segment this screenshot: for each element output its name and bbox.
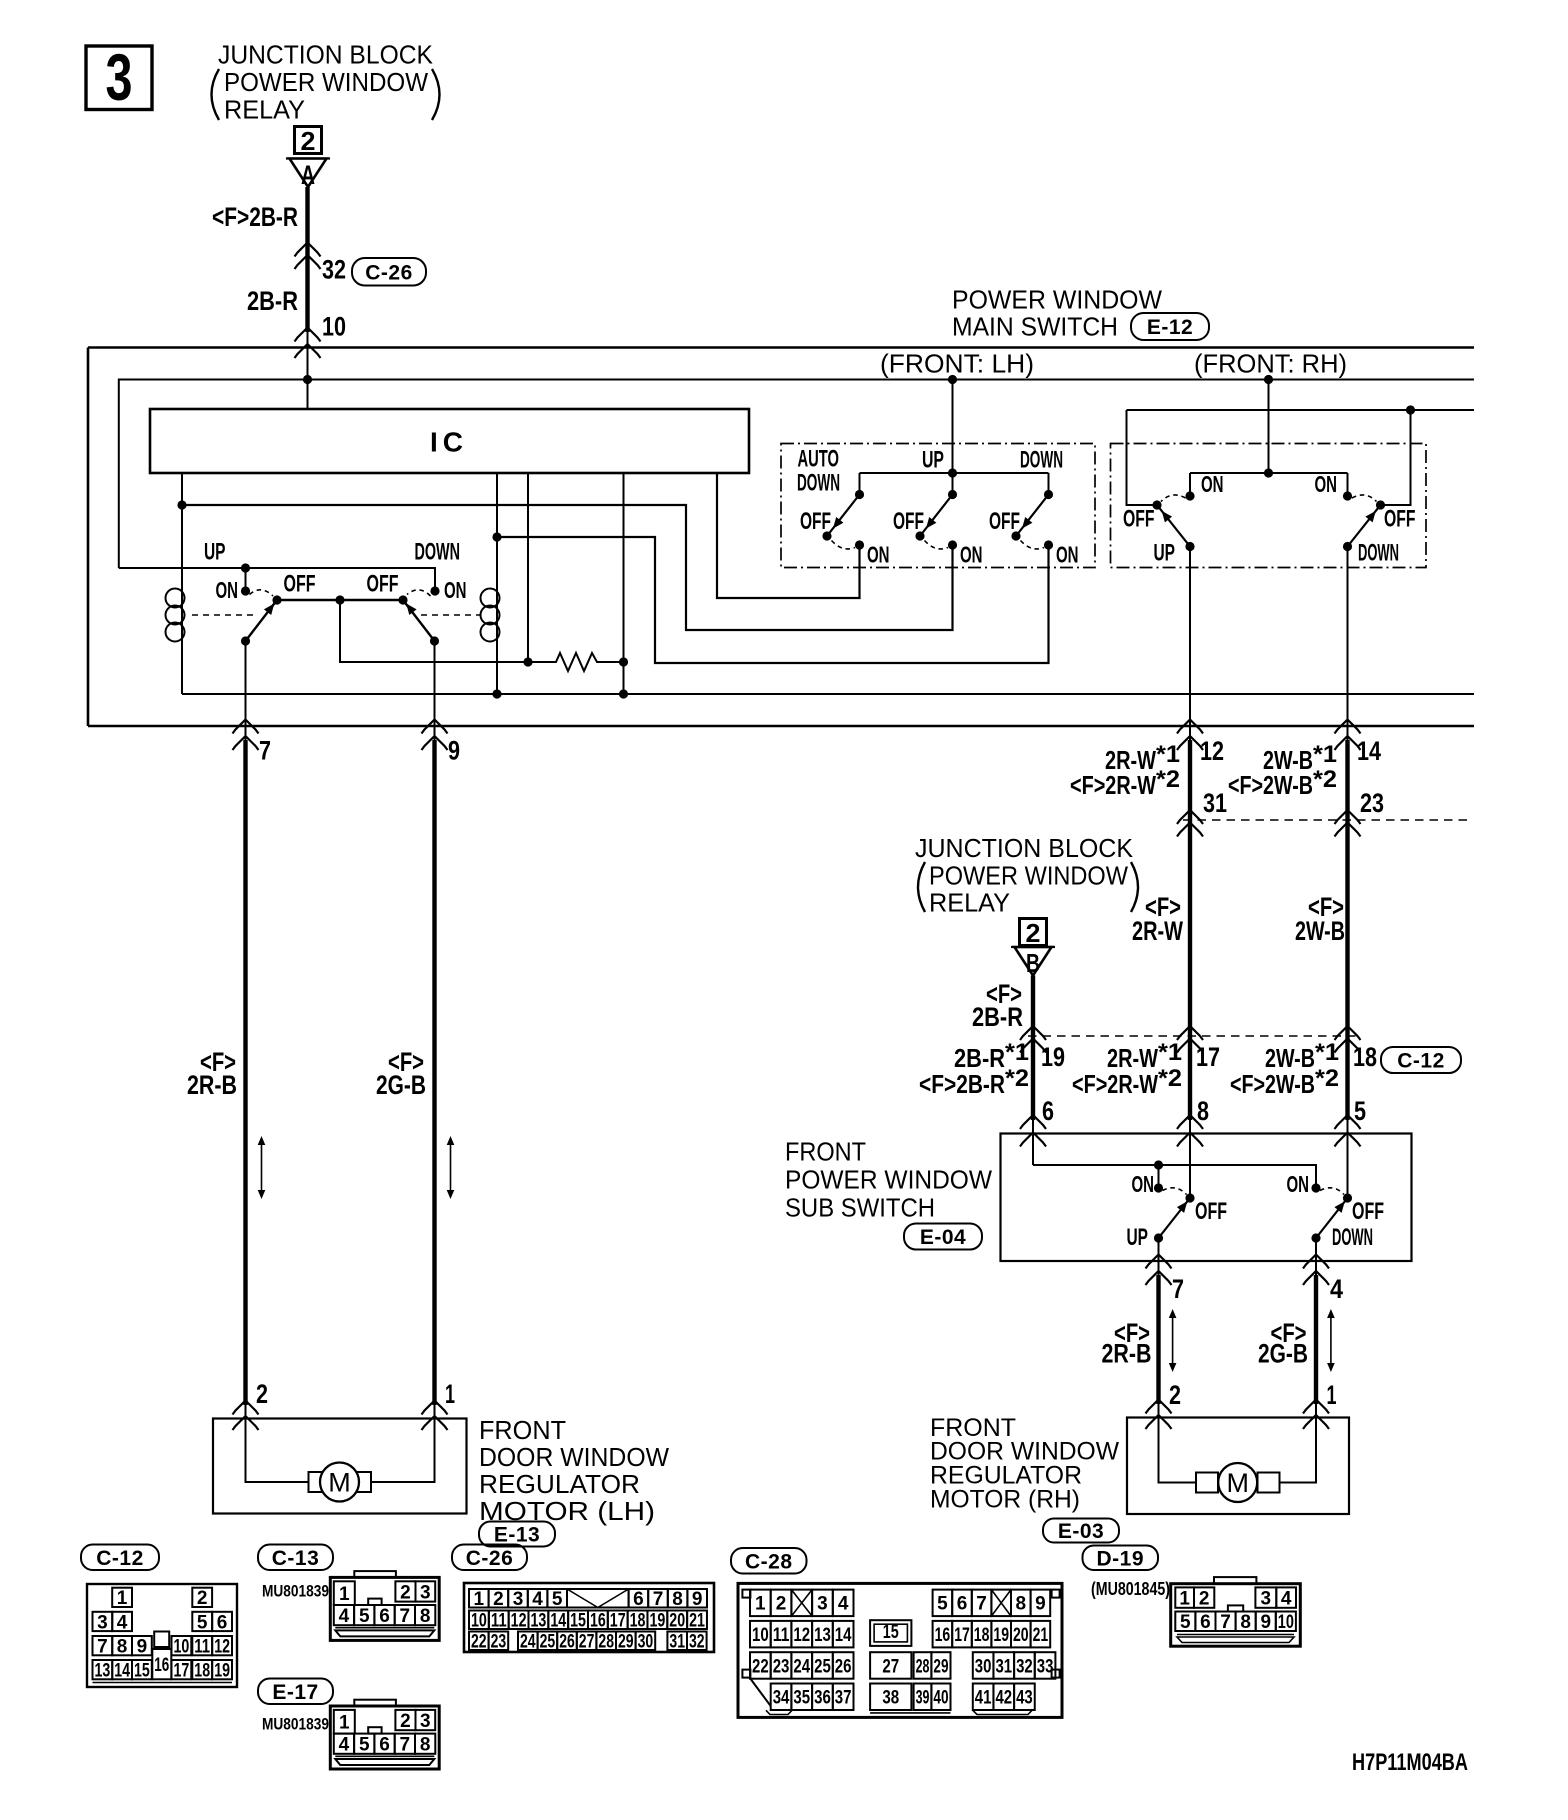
front door window regulator motor LH box	[213, 1419, 467, 1514]
svg-text:C-26: C-26	[365, 261, 413, 284]
RH down switch: dashed travel arc	[1352, 495, 1377, 502]
svg-text:20: 20	[1013, 1625, 1029, 1646]
svg-text:UP: UP	[922, 447, 944, 474]
svg-text:14: 14	[835, 1625, 852, 1646]
junction node coil L2 / ground bus	[492, 689, 501, 698]
switch LH down: ON contact node	[1044, 540, 1053, 549]
wire 2B-R from terminal A down to main switch pin 10	[305, 187, 309, 332]
svg-text:JUNCTION BLOCK: JUNCTION BLOCK	[915, 833, 1134, 863]
svg-text:16: 16	[590, 1611, 606, 1632]
svg-text:19: 19	[649, 1611, 665, 1632]
svg-text:OFF: OFF	[989, 508, 1020, 535]
connector C-26 row 2 cells	[469, 1611, 489, 1630]
svg-text:*1: *1	[1315, 1039, 1339, 1066]
svg-text:2: 2	[1169, 1380, 1181, 1410]
svg-text:14: 14	[1357, 736, 1381, 766]
RH feed bar stub right	[1347, 473, 1349, 496]
RH up switch: moving contact arm	[1157, 505, 1190, 547]
svg-text:IC: IC	[430, 427, 468, 458]
LH motor internal wiring	[246, 1419, 318, 1483]
connector E-17 cells	[334, 1710, 355, 1734]
svg-text:OFF: OFF	[1352, 1198, 1384, 1225]
svg-text:2: 2	[197, 1588, 208, 1609]
svg-text:POWER WINDOW: POWER WINDOW	[952, 285, 1162, 315]
svg-text:POWER WINDOW: POWER WINDOW	[224, 67, 428, 97]
svg-text:4: 4	[1330, 1274, 1343, 1304]
svg-text:8: 8	[1016, 1594, 1027, 1615]
harness arrow RH left	[1172, 1312, 1174, 1369]
wire IC pin through resistor right to ground bus	[623, 473, 625, 694]
svg-text:MU801839: MU801839	[262, 1715, 329, 1734]
connector D-19 row1 cells	[1175, 1587, 1194, 1607]
svg-text:36: 36	[814, 1688, 831, 1709]
svg-text:5: 5	[359, 1606, 370, 1627]
svg-text:2W-B: 2W-B	[1295, 916, 1345, 946]
LH motor pin 1 crossing marks	[422, 1401, 448, 1415]
crossing marks sub switch pin 5	[1335, 1115, 1361, 1129]
svg-text:26: 26	[835, 1656, 852, 1677]
svg-text:5: 5	[1180, 1612, 1191, 1633]
junction node sub switch feed	[1154, 1160, 1163, 1169]
sub up switch: moving contact arm	[1159, 1198, 1191, 1238]
connector C-13 cells	[334, 1581, 355, 1605]
svg-text:29: 29	[618, 1632, 634, 1653]
svg-text:32: 32	[689, 1632, 705, 1653]
connector C-28 bottom rails	[766, 1710, 792, 1714]
junction node return wire	[1406, 405, 1415, 414]
svg-text:7: 7	[97, 1636, 108, 1657]
svg-text:12: 12	[793, 1625, 810, 1646]
switch auto-down: ON contact node	[855, 540, 864, 549]
wire coil L1 to ground bus	[181, 641, 183, 694]
svg-text:43: 43	[1016, 1688, 1033, 1709]
LH motor brush blocks	[309, 1472, 331, 1492]
connector view C-12	[87, 1584, 237, 1687]
svg-text:3: 3	[1261, 1588, 1272, 1609]
RH motor brush blocks	[1196, 1473, 1218, 1493]
junction node relay UP common	[241, 563, 250, 572]
svg-text:3: 3	[420, 1582, 431, 1603]
connector C-28 center cells	[870, 1620, 911, 1646]
junction node resistor branch / ground bus	[619, 689, 628, 698]
junction node coil L1 top	[177, 500, 186, 509]
sub switch feed wire from pin 6	[1032, 1134, 1034, 1166]
svg-text:5: 5	[197, 1612, 208, 1633]
wire 2R-B pin 7 to LH motor pin 2	[243, 740, 247, 1405]
svg-text:15: 15	[570, 1611, 586, 1632]
svg-text:1: 1	[474, 1589, 485, 1610]
svg-text:7: 7	[400, 1606, 411, 1627]
svg-text:<F>2R-W: <F>2R-W	[1072, 1069, 1158, 1099]
svg-text:*2: *2	[1313, 766, 1337, 793]
svg-text:POWER WINDOW: POWER WINDOW	[785, 1165, 992, 1195]
connector C-26 row 3 cells	[469, 1632, 489, 1651]
svg-text:2: 2	[776, 1594, 787, 1615]
svg-text:19: 19	[214, 1660, 230, 1681]
wire relay UP contact to pin 7	[245, 641, 247, 741]
svg-text:4: 4	[339, 1735, 350, 1756]
svg-text:17: 17	[954, 1625, 970, 1646]
svg-text:12: 12	[511, 1611, 527, 1632]
svg-text:10: 10	[174, 1636, 190, 1657]
svg-text:DOWN: DOWN	[1332, 1224, 1373, 1251]
junction node resistor right	[619, 657, 628, 666]
svg-text:31: 31	[669, 1632, 685, 1653]
svg-text:8: 8	[117, 1636, 128, 1657]
svg-text:24: 24	[520, 1632, 536, 1653]
svg-text:E-13: E-13	[494, 1524, 540, 1547]
junction block terminal box 2	[295, 127, 322, 154]
crossing marks at main switch pin 10	[295, 328, 321, 342]
svg-text:29: 29	[933, 1656, 948, 1677]
connector C-26 keyway V	[567, 1589, 629, 1608]
relay DOWN arm pivot node	[398, 595, 407, 604]
connector C-28 bottom-left chamfer	[750, 1678, 771, 1707]
RH down switch: OFF contact node	[1376, 500, 1385, 509]
wire 2R-W pin 12 down to sub switch pin 8	[1188, 740, 1192, 1120]
wire IC pin to relay coil L1	[181, 473, 183, 589]
svg-text:41: 41	[975, 1688, 992, 1709]
RH motor pin 2 crossing marks	[1146, 1400, 1172, 1414]
connector pill E-03	[1043, 1519, 1119, 1543]
svg-text:34: 34	[773, 1688, 790, 1709]
svg-text:6: 6	[217, 1612, 228, 1633]
LH motor pin 2 crossing marks	[233, 1401, 259, 1415]
relay common wire between arms	[277, 599, 403, 601]
connector view D-19	[1214, 1577, 1256, 1584]
svg-text:18: 18	[1353, 1042, 1377, 1072]
wire bus to RH switch feed bar	[1268, 380, 1270, 474]
RH switch feed bar	[1190, 472, 1348, 474]
front door window regulator motor RH box	[1127, 1418, 1349, 1515]
svg-text:10: 10	[471, 1611, 487, 1632]
connector pill E-17	[258, 1679, 333, 1705]
svg-text:1: 1	[117, 1588, 128, 1609]
svg-text:*1: *1	[1005, 1039, 1029, 1066]
svg-text:6: 6	[1042, 1096, 1054, 1126]
svg-text:UP: UP	[1127, 1224, 1149, 1251]
svg-text:33: 33	[1037, 1656, 1054, 1677]
svg-text:DOWN: DOWN	[415, 539, 461, 566]
wire P: coil junction to LH UP switch ON contact	[182, 505, 953, 630]
svg-text:35: 35	[793, 1688, 810, 1709]
wire Q: coil L2 junction to LH DOWN switch ON contact	[497, 537, 1049, 663]
svg-text:H7P11M04BA: H7P11M04BA	[1352, 1749, 1468, 1776]
wire 2R-B sub pin 7 to RH motor pin 2	[1156, 1275, 1160, 1404]
svg-text:21: 21	[689, 1611, 705, 1632]
svg-text:1: 1	[445, 1379, 455, 1409]
svg-text:B: B	[1026, 948, 1040, 978]
svg-text:25: 25	[814, 1656, 831, 1677]
svg-text:9: 9	[692, 1589, 703, 1610]
svg-text:1: 1	[1179, 1588, 1190, 1609]
svg-text:27: 27	[579, 1632, 595, 1653]
switch auto-down: moving contact arm	[827, 495, 860, 537]
svg-text:ON: ON	[867, 541, 890, 567]
svg-text:ON: ON	[1315, 471, 1338, 497]
svg-text:2: 2	[493, 1589, 504, 1610]
svg-text:*2: *2	[1156, 766, 1180, 793]
svg-text:ON: ON	[216, 577, 239, 603]
wire relay common to resistor left	[340, 600, 528, 662]
svg-text:37: 37	[835, 1688, 852, 1709]
LH switch assembly dash-dot box	[781, 444, 1095, 568]
connector C-12 cell 16 (tall)	[152, 1649, 171, 1679]
pin 9 crossing marks	[422, 720, 448, 734]
sub switch pin 7 crossing marks	[1146, 1255, 1172, 1269]
svg-text:ON: ON	[1201, 471, 1224, 497]
RH motor pin 1 crossing marks	[1303, 1400, 1329, 1414]
harness arrow LH left	[261, 1139, 263, 1196]
svg-text:RELAY: RELAY	[224, 95, 305, 125]
svg-text:14: 14	[550, 1611, 566, 1632]
wire RH down common to pin 14	[1347, 547, 1349, 742]
wire relay DOWN contact to pin 9	[434, 641, 436, 741]
svg-text:ON: ON	[1132, 1171, 1155, 1197]
wire 2B-R from terminal B to sub switch pin 6	[1031, 976, 1035, 1121]
svg-text:28: 28	[598, 1632, 614, 1653]
svg-text:8: 8	[1240, 1612, 1251, 1633]
switch LH up: feed stub	[952, 473, 954, 495]
svg-text:E-12: E-12	[1147, 316, 1193, 339]
svg-text:22: 22	[752, 1656, 769, 1677]
connector pill C-28	[731, 1548, 807, 1574]
sub down switch: dashed travel arc	[1320, 1188, 1344, 1195]
svg-text:19: 19	[993, 1625, 1009, 1646]
svg-text:JUNCTION BLOCK: JUNCTION BLOCK	[218, 40, 434, 70]
svg-text:D-19: D-19	[1096, 1547, 1144, 1570]
svg-text:DOWN: DOWN	[1358, 540, 1399, 567]
svg-text:4: 4	[117, 1612, 128, 1633]
switch LH up: dashed travel arc	[925, 541, 949, 549]
wire RH up common to pin 12	[1189, 547, 1191, 742]
svg-text:M: M	[328, 1468, 351, 1498]
svg-text:6: 6	[633, 1589, 644, 1610]
harness arrow LH right	[450, 1139, 452, 1196]
svg-text:3: 3	[106, 40, 133, 114]
sub up switch ON contact node	[1154, 1183, 1163, 1192]
svg-text:REGULATOR: REGULATOR	[479, 1469, 640, 1499]
junction block terminal box 2 (B)	[1020, 919, 1047, 946]
switch LH down: top contact node	[1044, 490, 1053, 499]
svg-text:17: 17	[174, 1660, 190, 1681]
svg-text:(MU801845): (MU801845)	[1091, 1579, 1170, 1599]
svg-text:23: 23	[491, 1632, 507, 1653]
svg-text:*2: *2	[1005, 1065, 1029, 1092]
svg-text:5: 5	[359, 1735, 370, 1756]
dashed harness boundary line (upper)	[1183, 819, 1473, 821]
svg-text:OFF: OFF	[1123, 506, 1155, 533]
wire sub pin 8 into box	[1189, 1134, 1191, 1199]
relay UP switch ON contact	[241, 586, 250, 595]
inline connector C-26 pin 32 crossing marks	[295, 243, 321, 257]
svg-text:OFF: OFF	[800, 508, 831, 535]
motor M2 (RH window regulator)	[1218, 1463, 1257, 1502]
sub up switch: pivot node	[1185, 1193, 1194, 1202]
svg-text:FRONT: FRONT	[479, 1415, 566, 1445]
svg-text:E-17: E-17	[272, 1681, 318, 1704]
pin 14 crossing marks	[1335, 720, 1361, 734]
svg-text:18: 18	[630, 1611, 646, 1632]
svg-text:2: 2	[256, 1379, 268, 1409]
svg-text:C-12: C-12	[1397, 1050, 1445, 1073]
svg-text:2: 2	[400, 1711, 411, 1732]
svg-text:M: M	[1226, 1468, 1249, 1498]
connector view C-26	[464, 1583, 714, 1652]
connector pill C-12 (bottom)	[81, 1545, 159, 1571]
sub down switch: moving contact arm	[1316, 1198, 1348, 1238]
connector D-19 row2 cells	[1175, 1612, 1195, 1632]
crossing marks wire 2B-R at boundary	[1020, 1026, 1046, 1040]
svg-text:3: 3	[513, 1589, 524, 1610]
supply bus wire inside main switch	[119, 380, 1474, 569]
svg-text:31: 31	[1203, 788, 1227, 818]
junction node pin10/bus	[303, 375, 312, 384]
svg-text:ON: ON	[960, 541, 983, 567]
svg-text:30: 30	[975, 1656, 992, 1677]
svg-text:11: 11	[773, 1625, 790, 1646]
dashed travel arc relay UP	[250, 590, 274, 596]
svg-text:C-26: C-26	[466, 1547, 514, 1570]
svg-text:ON: ON	[444, 577, 467, 603]
connector pill E-13	[479, 1522, 555, 1547]
svg-text:17: 17	[1196, 1042, 1220, 1072]
pin 12 crossing marks	[1177, 720, 1203, 734]
connector view C-28	[738, 1583, 1062, 1717]
junction node coil L2 top	[492, 532, 501, 541]
svg-text:E-04: E-04	[920, 1226, 966, 1249]
connector C-12 bottom rail	[93, 1682, 233, 1684]
svg-text:21: 21	[1033, 1625, 1049, 1646]
switch LH down: dashed travel arc	[1021, 541, 1045, 549]
svg-text:18: 18	[194, 1660, 210, 1681]
svg-text:25: 25	[540, 1632, 556, 1653]
svg-text:10: 10	[1278, 1612, 1294, 1633]
svg-text:2: 2	[301, 126, 316, 156]
svg-text:6: 6	[379, 1735, 390, 1756]
svg-text:POWER WINDOW: POWER WINDOW	[929, 861, 1128, 891]
svg-text:9: 9	[137, 1636, 148, 1657]
svg-text:C-28: C-28	[745, 1550, 793, 1573]
svg-text:4: 4	[532, 1589, 543, 1610]
svg-text:20: 20	[669, 1611, 685, 1632]
junction node LH feed bar center	[948, 468, 957, 477]
wire sub DOWN contact to pin 4	[1315, 1238, 1317, 1276]
relay contact feed wire y=568	[119, 568, 435, 591]
switch auto-down: OFF contact node	[822, 531, 831, 540]
switch auto-down: top contact node	[855, 490, 864, 499]
svg-text:7: 7	[976, 1594, 987, 1615]
svg-text:8: 8	[1197, 1096, 1209, 1126]
relay coil L2	[481, 589, 500, 608]
connector pill C-26 (bottom)	[452, 1545, 527, 1571]
svg-text:4: 4	[1281, 1588, 1292, 1609]
svg-text:*2: *2	[1315, 1065, 1339, 1092]
dashed travel arc relay DOWN	[407, 590, 431, 596]
svg-text:23: 23	[773, 1656, 790, 1677]
RH motor internal wiring	[1159, 1418, 1216, 1483]
junction node bus/LH switch feed	[948, 375, 957, 384]
connector C-12 keyway	[154, 1632, 169, 1648]
LH switch feed bar	[860, 472, 1049, 474]
svg-text:1: 1	[339, 1713, 350, 1734]
RH down switch: ON contact node	[1343, 491, 1352, 500]
connector C-26 row 1 cells	[469, 1589, 489, 1608]
RH up switch: common node	[1185, 542, 1194, 551]
svg-text:19: 19	[1041, 1042, 1065, 1072]
front power window sub switch box	[1001, 1134, 1412, 1262]
svg-text:2R-B: 2R-B	[1102, 1339, 1152, 1369]
wire IC pin to resistor left	[527, 473, 529, 662]
connector pill E-12	[1131, 313, 1209, 340]
connector pill E-04	[904, 1224, 982, 1250]
svg-text:39: 39	[916, 1688, 930, 1709]
relay UP moving contact arm	[246, 600, 278, 641]
svg-text:32: 32	[1016, 1656, 1033, 1677]
power window main switch box (open right side)	[88, 346, 1474, 349]
crossing marks sub switch pin 8	[1177, 1115, 1203, 1129]
svg-text:2: 2	[1199, 1588, 1210, 1609]
junction node relay common branch	[335, 595, 344, 604]
svg-text:32: 32	[322, 255, 346, 285]
svg-text:6: 6	[957, 1594, 968, 1615]
RH down switch: moving contact arm	[1348, 505, 1381, 547]
svg-text:2: 2	[400, 1582, 411, 1603]
svg-text:11: 11	[491, 1611, 507, 1632]
RH up switch: ON contact node	[1185, 491, 1194, 500]
svg-text:13: 13	[814, 1625, 831, 1646]
svg-text:1: 1	[1327, 1380, 1337, 1410]
crossing marks wire 2W-B at boundary	[1335, 810, 1361, 824]
sub down switch: DOWN contact node	[1311, 1233, 1320, 1242]
svg-text:<F>2W-B: <F>2W-B	[1230, 1069, 1315, 1099]
svg-text:(FRONT: LH): (FRONT: LH)	[880, 349, 1034, 379]
sub up switch: dashed travel arc	[1163, 1188, 1187, 1195]
connector pill C-12 (middle)	[1381, 1047, 1461, 1073]
svg-text:*1: *1	[1156, 741, 1180, 768]
RH switch assembly dash-dot box	[1111, 444, 1427, 568]
svg-text:23: 23	[1360, 788, 1384, 818]
svg-text:11: 11	[194, 1636, 210, 1657]
svg-text:DOWN: DOWN	[797, 470, 840, 497]
svg-text:ON: ON	[1056, 541, 1079, 567]
wire 2G-B pin 9 to LH motor pin 1	[432, 740, 436, 1405]
relay UP output contact node	[241, 636, 250, 645]
connector D-19 bottom rail	[1177, 1634, 1294, 1636]
switch LH up: top contact node	[948, 490, 957, 499]
svg-text:24: 24	[793, 1656, 810, 1677]
svg-text:(FRONT: RH): (FRONT: RH)	[1194, 349, 1347, 379]
svg-text:8: 8	[420, 1606, 431, 1627]
svg-text:1: 1	[755, 1594, 766, 1615]
relay DOWN output contact node	[430, 636, 439, 645]
svg-text:*2: *2	[1158, 1065, 1182, 1092]
svg-text:13: 13	[95, 1660, 111, 1681]
svg-text:MOTOR (RH): MOTOR (RH)	[930, 1486, 1080, 1514]
svg-text:2R-B: 2R-B	[187, 1070, 237, 1100]
svg-text:UP: UP	[1154, 540, 1176, 567]
svg-text:38: 38	[882, 1688, 899, 1709]
svg-text:10: 10	[322, 312, 346, 342]
relay UP switch upper contact stub	[245, 568, 247, 591]
svg-text:<F>2B-R: <F>2B-R	[212, 202, 298, 232]
sheet number box 3	[86, 46, 152, 110]
dashed harness boundary line (lower)	[1028, 1035, 1358, 1037]
svg-text:31: 31	[995, 1656, 1012, 1677]
junction block terminal triangle B	[1015, 947, 1052, 976]
ground bus wire y=694	[182, 693, 1474, 695]
relay DOWN moving contact arm	[403, 600, 435, 641]
